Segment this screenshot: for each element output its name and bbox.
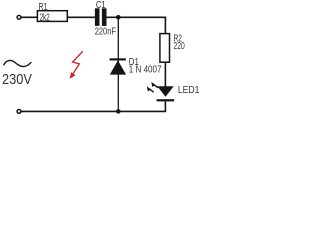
- wire T1 to R1: [21, 16, 37, 18]
- svg-text:230V: 230V: [2, 71, 32, 88]
- AC source symbol (sine): [4, 60, 32, 66]
- wire R2 to LED1: [164, 62, 166, 86]
- terminal T1 (top left): [17, 15, 21, 19]
- LED LED1: [147, 82, 174, 102]
- terminal T2 (bottom left): [17, 110, 21, 114]
- svg-text:220nF: 220nF: [95, 27, 116, 38]
- wire R1 to C1: [67, 16, 95, 18]
- capacitor C1: [95, 8, 107, 26]
- hazard flash (danger arrow): [70, 51, 83, 79]
- svg-text:LED1: LED1: [178, 85, 200, 96]
- svg-text:C1: C1: [96, 0, 106, 11]
- resistor R1: [37, 11, 67, 22]
- wire corner down to R2: [164, 17, 166, 34]
- wire bottom rail: [21, 110, 166, 112]
- wire D1 branch (vertical): [117, 17, 119, 111]
- diode D1: [110, 58, 127, 74]
- node junction bottom (D1/rail): [116, 109, 121, 114]
- wire C1 to corner (top rail right): [107, 16, 167, 18]
- wire LED1 to bottom rail: [164, 101, 166, 111]
- node junction top (C1/D1): [116, 15, 121, 20]
- svg-text:220: 220: [174, 41, 185, 52]
- svg-text:1 N 4007: 1 N 4007: [129, 65, 162, 76]
- svg-text:2k2: 2k2: [40, 12, 50, 23]
- resistor R2: [160, 34, 170, 63]
